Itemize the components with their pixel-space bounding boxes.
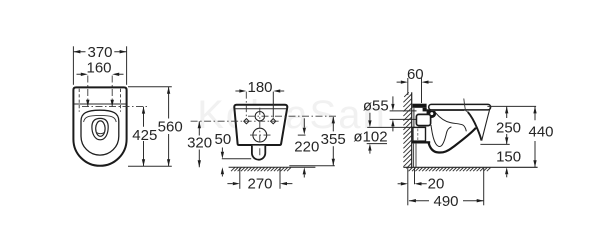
bowl front inner (468, 112, 482, 141)
dim 50 lower arrow (221, 174, 223, 176)
wall face line (411, 92, 413, 167)
dim 370 line (73, 51, 126, 53)
centerline fixing horizontal (191, 120, 279, 122)
outlet pipe lines (367, 127, 413, 143)
back plate line (413, 108, 415, 127)
hinge blob (427, 109, 436, 118)
dim 60 ext right (421, 78, 423, 103)
svg-text:ø55: ø55 (363, 98, 389, 115)
below-ground ext outlet (414, 167, 416, 184)
svg-text:355: 355 (321, 131, 346, 148)
dim 20 line+arrows (398, 183, 427, 185)
dim 370 arrows (73, 50, 126, 53)
svg-text:160: 160 (86, 59, 111, 76)
outlet circle front (253, 128, 267, 142)
bracket step black (423, 108, 427, 112)
dim 490 arrows (409, 199, 484, 202)
ground hatch front (231, 168, 291, 172)
dim 440 line (534, 106, 536, 167)
svg-text:180: 180 (247, 79, 272, 96)
dim 560 arrows (167, 87, 170, 167)
svg-text:220: 220 (294, 138, 319, 155)
dim 440 arrows (533, 106, 536, 167)
rim front curve (466, 111, 468, 112)
seat opening oval (81, 110, 119, 155)
ground line side (403, 166, 537, 168)
seat slab (429, 104, 491, 110)
svg-text:ø102: ø102 (353, 128, 387, 145)
inlet circle front (255, 112, 264, 121)
svg-text:250: 250 (496, 119, 521, 136)
dim 250 arrows (505, 106, 508, 144)
top ext line (seat) (487, 105, 536, 107)
below-ground ext front (483, 168, 485, 205)
dim 220 lower arrow (303, 174, 305, 177)
mid ext line (bowl tip) (480, 143, 509, 145)
dim 180 ext left (245, 92, 247, 118)
outlet spigot hidden line (417, 129, 419, 141)
dim 560 ext top (128, 86, 172, 88)
dim 425 arrows (142, 107, 145, 167)
svg-text:560: 560 (158, 118, 183, 135)
trap inner curve (431, 125, 451, 146)
centerline inlet horizontal (248, 115, 336, 117)
dim 355 line (332, 117, 334, 166)
dim 270 ext right (279, 168, 281, 189)
dim 320 line (198, 121, 200, 167)
svg-text:425: 425 (132, 127, 157, 144)
svg-text:490: 490 (433, 193, 458, 210)
dim 370 ext right (126, 46, 128, 85)
trap hole (96, 121, 105, 136)
dim 425 line (143, 107, 145, 167)
rear profile line below outlet (414, 144, 416, 167)
hidden edge right (120, 89, 122, 112)
svg-text:440: 440 (528, 124, 553, 141)
dim 60 ext left (407, 78, 409, 95)
fixing hole line (dash-dot to 425 dim) (82, 106, 149, 108)
fixing arrow right (111, 100, 114, 107)
ground hatch side (409, 168, 491, 172)
dim 150 lower arrow (506, 174, 508, 177)
outlet bottom band (412, 141, 430, 143)
dim 560 ext bottom (128, 165, 172, 167)
below-ground ext wall (407, 167, 409, 205)
toilet body outline plan (73, 87, 126, 165)
dim 355 bottom ext (289, 165, 335, 167)
bracket bar black (412, 104, 426, 108)
tick at 220 top (298, 134, 306, 136)
rim top line under seat (431, 110, 465, 112)
trap hole chord (96, 132, 104, 133)
dim 160 line+arrows (outside) (77, 73, 124, 75)
dim 180 ext right (272, 92, 274, 118)
rim inner arc (84, 115, 117, 122)
hidden edge left (78, 89, 80, 112)
seam line plan (74, 103, 126, 105)
ground line front (229, 166, 316, 168)
fixing diamond right (271, 119, 276, 124)
fixing centerline left (87, 76, 89, 108)
dim 320 arrows (198, 121, 201, 167)
basin curve (436, 113, 467, 131)
front body outline (234, 105, 287, 145)
dim 490 line (409, 200, 484, 202)
fixing arrow left (86, 100, 89, 107)
dim 220 upper arrow (303, 118, 305, 127)
hinge pin hole (430, 112, 433, 115)
dim 60 line+arrows (397, 81, 433, 83)
fixing diamond left (244, 119, 249, 124)
fixing centerline right (111, 76, 113, 108)
svg-text:270: 270 (247, 176, 272, 193)
dim 370 ext left (72, 46, 74, 85)
bowl front outer (482, 106, 491, 141)
dim 270 ext left (239, 168, 241, 189)
seat tick (464, 99, 466, 111)
dia55 arrows (392, 96, 394, 131)
centerline vertical front (259, 108, 261, 158)
wall hatch (403, 92, 411, 168)
sump outline (92, 118, 108, 139)
svg-text:150: 150 (496, 149, 521, 166)
inlet spigot (416, 114, 430, 125)
svg-text:50: 50 (215, 131, 232, 148)
dim 180 line+arrows (235, 90, 284, 92)
outlet bottom ref line (222, 158, 251, 160)
dim 50 upper arrow (221, 148, 223, 152)
centerline outlet horizontal (250, 134, 271, 136)
svg-text:20: 20 (428, 176, 445, 193)
outlet pipe front (252, 146, 265, 160)
dim 270 line+arrows (227, 183, 292, 185)
supply pipe lines (through wall) (390, 111, 417, 120)
dim 355 arrows (332, 116, 335, 165)
dim 250 line (506, 106, 508, 144)
front inner top line (235, 108, 287, 110)
bowl underside thick (428, 128, 476, 153)
svg-text:320: 320 (187, 134, 212, 151)
outlet spigot (413, 127, 426, 141)
dim 560 line (168, 87, 170, 167)
dia102 arrows (369, 113, 371, 154)
